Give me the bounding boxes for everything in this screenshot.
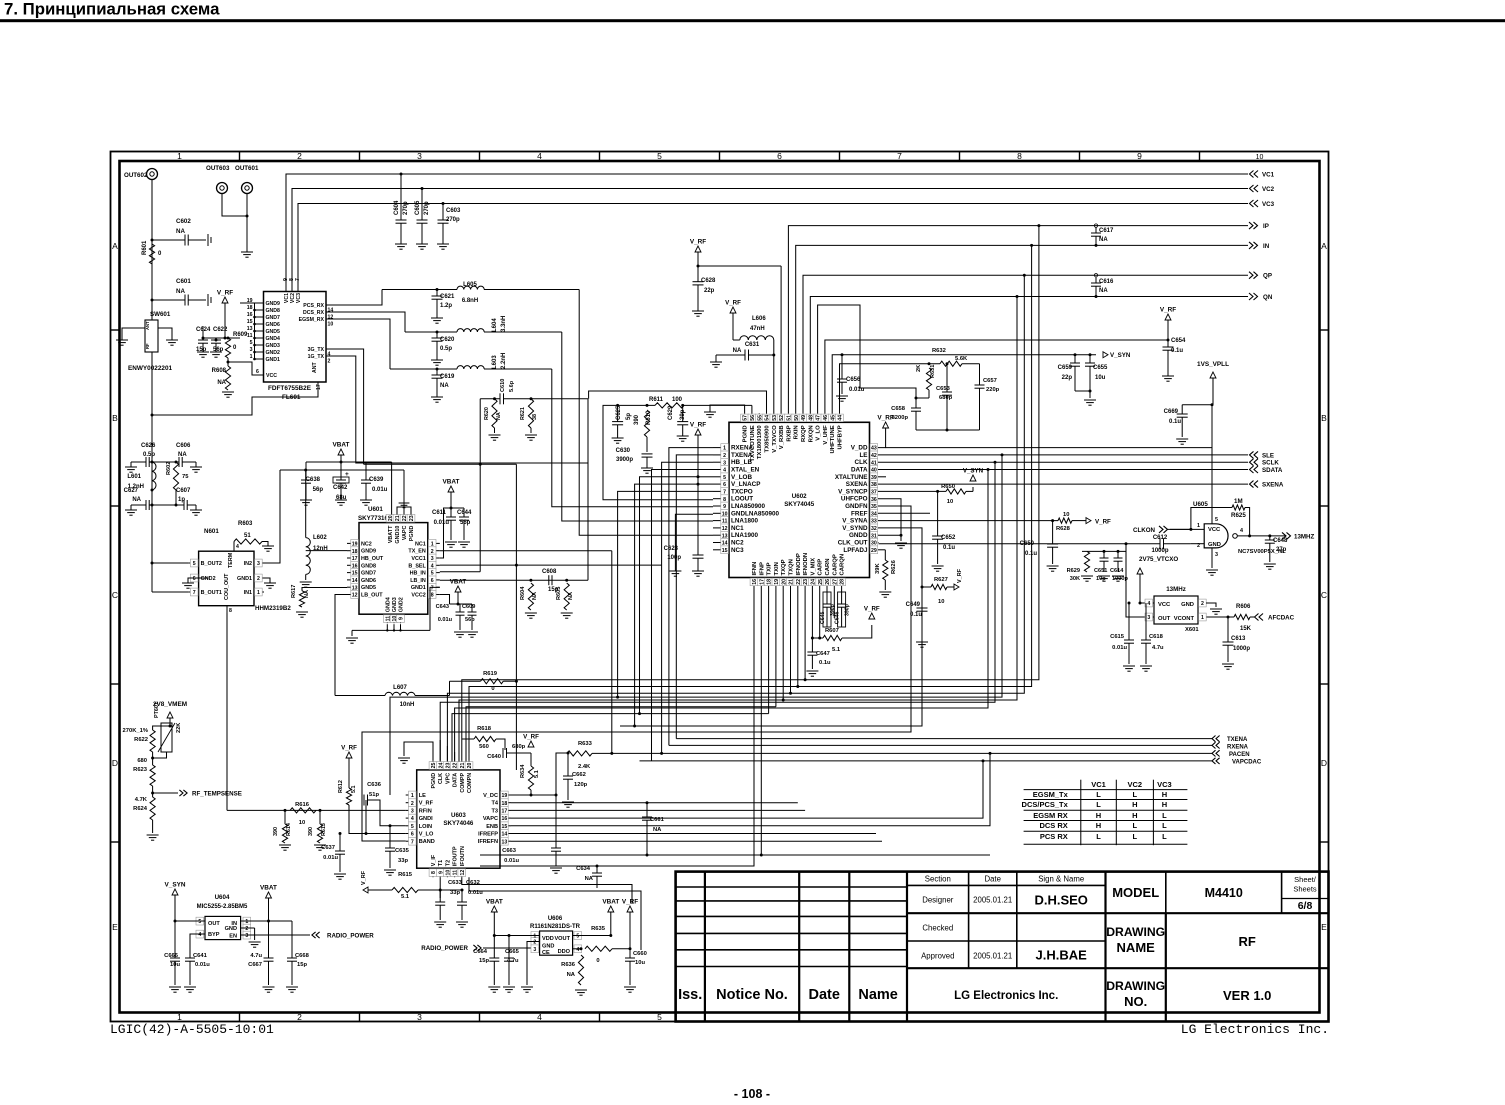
- svg-text:VBAT: VBAT: [260, 885, 277, 892]
- svg-text:7: 7: [897, 151, 902, 161]
- svg-text:12: 12: [460, 870, 466, 876]
- svg-text:0: 0: [596, 958, 599, 964]
- svg-text:C636: C636: [367, 782, 382, 788]
- svg-text:RXENA: RXENA: [1227, 745, 1249, 751]
- svg-text:V_SYN: V_SYN: [165, 882, 186, 889]
- svg-text:R606: R606: [1236, 604, 1251, 610]
- svg-text:3: 3: [533, 947, 536, 953]
- svg-text:10u: 10u: [1095, 375, 1106, 381]
- svg-text:1: 1: [177, 1012, 182, 1022]
- wire GNDLNA to ground: [675, 514, 713, 565]
- svg-text:C658: C658: [891, 406, 906, 412]
- svg-text:VC1: VC1: [1262, 172, 1275, 179]
- svg-text:10u: 10u: [635, 960, 645, 966]
- svg-text:56p: 56p: [213, 347, 224, 353]
- svg-text:V_RF: V_RF: [957, 568, 963, 583]
- svg-text:C633: C633: [448, 880, 463, 886]
- connector RXENA: [1216, 742, 1220, 748]
- svg-text:DRAWING: DRAWING: [1106, 925, 1165, 939]
- X601 pins: [1140, 602, 1154, 604]
- svg-text:390p: 390p: [845, 604, 851, 616]
- svg-text:TXIP: TXIP: [767, 562, 773, 575]
- svg-text:NA: NA: [176, 228, 185, 235]
- svg-text:C649: C649: [906, 602, 921, 608]
- svg-text:C637: C637: [321, 845, 335, 851]
- connector VC2: [1254, 185, 1258, 192]
- svg-text:11: 11: [247, 333, 253, 339]
- power V_RF at R612: [346, 752, 352, 758]
- wire L602 bottom gnd: [305, 574, 307, 580]
- svg-text:C621: C621: [440, 294, 455, 300]
- svg-text:3: 3: [257, 561, 260, 567]
- svg-text:6.8nH: 6.8nH: [462, 298, 478, 304]
- svg-text:Sign & Name: Sign & Name: [1038, 875, 1084, 884]
- svg-text:0.01u: 0.01u: [434, 520, 450, 526]
- connector RF_TEMPSENSE: [151, 792, 154, 795]
- wire V_LNACP left route: [635, 484, 698, 726]
- svg-text:20: 20: [467, 763, 473, 769]
- svg-text:C653: C653: [936, 386, 951, 392]
- IC U602 SKY74045 transceiver: [729, 422, 870, 577]
- svg-text:C610: C610: [500, 379, 506, 392]
- svg-text:VOUT: VOUT: [554, 936, 570, 942]
- svg-text:270K_1%: 270K_1%: [123, 728, 148, 734]
- svg-text:GND1: GND1: [411, 585, 426, 591]
- svg-text:C631: C631: [745, 342, 760, 348]
- connector 13MHZ: [1282, 532, 1286, 539]
- svg-text:5.1: 5.1: [832, 647, 841, 653]
- svg-text:38: 38: [532, 414, 538, 420]
- svg-text:C601: C601: [176, 278, 191, 285]
- svg-text:C615: C615: [1110, 634, 1125, 640]
- svg-text:L606: L606: [752, 316, 766, 322]
- svg-text:OUT: OUT: [208, 921, 220, 927]
- svg-text:8200p: 8200p: [892, 415, 909, 421]
- power VBAT at U604: [266, 892, 272, 898]
- svg-text:C656: C656: [846, 377, 861, 383]
- svg-text:V_MIX: V_MIX: [810, 558, 816, 576]
- svg-text:18: 18: [502, 801, 508, 807]
- svg-text:E: E: [1321, 922, 1327, 932]
- svg-text:100: 100: [672, 397, 683, 403]
- svg-text:6: 6: [256, 369, 259, 375]
- svg-text:5: 5: [1215, 517, 1218, 523]
- svg-text:R625: R625: [1231, 512, 1246, 519]
- svg-text:TERM: TERM: [228, 552, 234, 568]
- svg-text:GND: GND: [1181, 602, 1194, 608]
- svg-text:5: 5: [576, 934, 579, 940]
- wire LB_OUT to L607: [335, 595, 347, 696]
- svg-text:EN: EN: [229, 934, 237, 940]
- svg-text:U605: U605: [1193, 501, 1208, 508]
- svg-text:IP: IP: [1263, 223, 1269, 230]
- svg-text:8: 8: [431, 593, 434, 599]
- svg-text:15K: 15K: [1240, 626, 1252, 632]
- U605 VCC pin5 vertical: [1211, 405, 1213, 524]
- svg-text:4: 4: [236, 544, 239, 550]
- svg-text:IFREFN: IFREFN: [478, 839, 498, 845]
- svg-text:NC1: NC1: [731, 525, 744, 532]
- svg-text:13: 13: [247, 326, 253, 332]
- svg-text:VC3: VC3: [1262, 201, 1275, 208]
- svg-text:ANT: ANT: [145, 321, 150, 330]
- svg-text:VBAT: VBAT: [602, 899, 619, 906]
- power VBAT left of U606: [491, 906, 497, 912]
- svg-text:R624: R624: [133, 806, 148, 812]
- wire C634 net: [480, 865, 720, 867]
- svg-text:IFNP: IFNP: [759, 562, 765, 575]
- svg-text:C661: C661: [650, 817, 665, 823]
- wire FL601 ANT to SW601: [152, 352, 318, 415]
- svg-text:- 108 -: - 108 -: [734, 1087, 770, 1100]
- svg-text:C651: C651: [1094, 568, 1107, 574]
- svg-text:1: 1: [177, 151, 182, 161]
- svg-text:14: 14: [502, 832, 508, 838]
- svg-text:VBAT: VBAT: [333, 442, 350, 449]
- svg-text:LB_OUT: LB_OUT: [361, 593, 383, 599]
- power V_RF at U602 VDD: [883, 422, 889, 428]
- svg-text:LE: LE: [859, 452, 867, 459]
- svg-text:L601: L601: [127, 474, 141, 480]
- svg-text:A: A: [112, 241, 118, 251]
- wire TX850900 route to C610 net: [589, 391, 767, 413]
- capacitor C603 270p: [442, 202, 445, 205]
- FL601 right pins: [326, 304, 335, 306]
- svg-text:R635: R635: [591, 926, 606, 932]
- svg-text:51p: 51p: [369, 792, 379, 798]
- power V_RF top-left: [222, 297, 228, 303]
- wire V_TXVCO up to L606: [773, 355, 775, 413]
- svg-text:GND9: GND9: [361, 549, 376, 555]
- svg-text:R619: R619: [483, 671, 498, 677]
- svg-text:C655: C655: [1093, 365, 1108, 371]
- svg-text:5: 5: [657, 1012, 662, 1022]
- svg-text:3G_TX: 3G_TX: [308, 347, 325, 353]
- svg-text:R1161N281DS-TR: R1161N281DS-TR: [530, 924, 581, 930]
- N601 left pins: [189, 562, 199, 564]
- svg-text:GND2: GND2: [266, 350, 281, 356]
- FL601 ground bus: [254, 303, 256, 359]
- svg-text:5.6p: 5.6p: [509, 380, 515, 392]
- svg-text:RADIO_POWER: RADIO_POWER: [327, 933, 374, 940]
- wire vertical 516 to R619: [515, 464, 517, 681]
- wire V_IF down: [439, 877, 441, 898]
- svg-text:L: L: [1096, 832, 1101, 841]
- svg-text:C630: C630: [616, 448, 631, 454]
- wire to FL601 VCC: [228, 362, 263, 375]
- svg-text:V_RF: V_RF: [217, 290, 233, 297]
- svg-text:D: D: [1321, 758, 1327, 768]
- thermistor PT601: [161, 723, 172, 752]
- U603 left pins: [406, 794, 417, 796]
- svg-text:LE: LE: [419, 793, 426, 799]
- svg-text:B: B: [1321, 413, 1327, 423]
- svg-text:GNDI: GNDI: [419, 816, 433, 822]
- svg-text:SW601: SW601: [150, 311, 171, 318]
- wire V_LO line: [349, 805, 406, 834]
- svg-text:C657: C657: [983, 378, 997, 384]
- svg-text:VC3: VC3: [296, 293, 302, 303]
- connector VAPCDAC: [1216, 758, 1220, 764]
- svg-text:GND7: GND7: [266, 315, 281, 321]
- wire LB_OUT line: [302, 588, 347, 591]
- svg-text:H: H: [1162, 800, 1167, 809]
- power VBAT right of U606: [608, 906, 614, 912]
- svg-text:VBAT: VBAT: [486, 899, 503, 906]
- capacitor C621 1.2p: [436, 288, 439, 291]
- title block left grid: [704, 872, 706, 1022]
- svg-text:IN: IN: [1263, 243, 1270, 250]
- svg-text:MIC5255-2.85BM5: MIC5255-2.85BM5: [197, 904, 248, 910]
- wire VPLL junction: [1211, 403, 1214, 406]
- power V_RF at C660: [627, 906, 633, 912]
- resistor R626 39K LPFADJ: [879, 549, 886, 551]
- svg-text:LPFADJ: LPFADJ: [843, 547, 868, 554]
- svg-text:CLK_OUT: CLK_OUT: [838, 540, 868, 547]
- ground U602 pin57: [710, 405, 745, 413]
- svg-text:NA: NA: [440, 383, 449, 389]
- svg-text:390: 390: [308, 827, 314, 836]
- svg-text:CLKON: CLKON: [1133, 527, 1156, 534]
- svg-text:5p: 5p: [626, 413, 632, 420]
- svg-text:3: 3: [411, 809, 414, 815]
- svg-text:390: 390: [273, 827, 279, 836]
- svg-text:VCONT: VCONT: [1174, 616, 1195, 622]
- svg-text:NA: NA: [733, 348, 742, 354]
- svg-text:6/8: 6/8: [1298, 900, 1313, 912]
- svg-text:7. Принципиальная схема: 7. Принципиальная схема: [4, 0, 220, 19]
- svg-text:VPC: VPC: [445, 773, 451, 784]
- svg-text:33p: 33p: [398, 858, 408, 864]
- svg-text:COMPP: COMPP: [460, 773, 466, 793]
- wire IFOUTP route: [462, 877, 632, 904]
- svg-text:30K: 30K: [1070, 576, 1080, 582]
- svg-text:L: L: [1162, 811, 1167, 820]
- power VBAT2 at VCC2: [455, 586, 461, 592]
- svg-text:V_RF: V_RF: [864, 606, 880, 613]
- svg-text:GND3: GND3: [266, 343, 281, 349]
- wire IQ route IP to COMPP: [462, 226, 1039, 739]
- connector SXENA: [1254, 481, 1258, 488]
- connector VC3: [1254, 200, 1258, 207]
- connector PACEN: [1216, 750, 1220, 756]
- svg-text:VCC1: VCC1: [411, 556, 425, 562]
- svg-text:V_RF: V_RF: [361, 870, 367, 885]
- svg-text:VAPC: VAPC: [483, 816, 498, 822]
- svg-text:V_RF: V_RF: [523, 734, 539, 741]
- svg-text:R636: R636: [561, 962, 576, 968]
- svg-text:IFREFP: IFREFP: [478, 832, 498, 838]
- svg-text:NA: NA: [132, 497, 141, 503]
- svg-text:B: B: [112, 413, 118, 423]
- wire LNA1900: [579, 290, 713, 536]
- svg-text:13: 13: [502, 839, 508, 845]
- svg-text:R629: R629: [1067, 568, 1080, 574]
- svg-text:C617: C617: [1099, 228, 1114, 234]
- svg-text:TX850900: TX850900: [765, 425, 771, 453]
- wire IQ route QP to VPC: [447, 275, 1024, 761]
- svg-text:V_RXBB: V_RXBB: [779, 425, 785, 449]
- svg-text:15: 15: [247, 319, 253, 325]
- wire VC1 line: [286, 174, 1248, 283]
- svg-text:FDFT6755B2E: FDFT6755B2E: [268, 385, 312, 392]
- svg-text:HB_IN: HB_IN: [410, 571, 426, 577]
- svg-text:1000p: 1000p: [1233, 646, 1250, 652]
- wire HB_IN: [440, 571, 480, 573]
- svg-text:R605: R605: [556, 587, 562, 600]
- svg-text:C625: C625: [616, 405, 622, 420]
- svg-text:VDD: VDD: [542, 936, 554, 942]
- svg-text:V_SYNA: V_SYNA: [842, 518, 868, 525]
- svg-text:2: 2: [297, 151, 302, 161]
- svg-text:680p: 680p: [939, 395, 953, 401]
- svg-text:VCC: VCC: [1158, 602, 1171, 608]
- wire V_DD extension line: [886, 447, 1212, 449]
- svg-text:V_LOB: V_LOB: [731, 474, 752, 481]
- svg-text:VAPCDAC: VAPCDAC: [1232, 760, 1262, 766]
- svg-text:C632: C632: [466, 880, 480, 886]
- svg-text:3: 3: [417, 1012, 422, 1022]
- svg-text:0.1u: 0.1u: [819, 660, 831, 666]
- wire IQ route QN: [459, 297, 1017, 771]
- svg-text:U601: U601: [368, 506, 383, 513]
- svg-text:1: 1: [250, 354, 253, 360]
- U603 PGND ground: [404, 742, 433, 761]
- wire bundle U602 bottom verticals: [480, 587, 754, 867]
- svg-text:270p: 270p: [446, 217, 460, 223]
- svg-text:R617: R617: [291, 585, 297, 598]
- svg-text:VCC2: VCC2: [411, 593, 425, 599]
- svg-text:22K: 22K: [176, 723, 182, 733]
- wire IFREFN line: [511, 840, 882, 842]
- svg-text:4: 4: [576, 947, 579, 953]
- svg-text:GND8: GND8: [266, 308, 281, 314]
- svg-text:IFNN: IFNN: [752, 562, 758, 576]
- svg-text:LNA1900: LNA1900: [731, 532, 758, 539]
- svg-text:C660: C660: [633, 951, 647, 957]
- svg-text:NC2: NC2: [361, 541, 372, 547]
- svg-text:U603: U603: [451, 812, 466, 819]
- svg-text:VCC: VCC: [266, 373, 277, 379]
- U605 output wire: [1237, 535, 1286, 537]
- svg-text:AFCDAC: AFCDAC: [1268, 615, 1295, 622]
- svg-text:NA: NA: [653, 827, 662, 833]
- svg-text:NA: NA: [585, 876, 594, 882]
- svg-text:10: 10: [938, 599, 944, 605]
- svg-text:X601: X601: [1185, 627, 1199, 633]
- svg-text:0.1u: 0.1u: [1169, 419, 1181, 425]
- svg-text:L: L: [1133, 790, 1138, 799]
- wire CLK route: [440, 462, 995, 761]
- svg-text:TXENA: TXENA: [1227, 737, 1248, 743]
- svg-text:CLK: CLK: [855, 459, 868, 466]
- svg-text:R604: R604: [520, 586, 526, 600]
- wire VRF node: [203, 337, 240, 339]
- svg-text:GND1: GND1: [237, 576, 252, 582]
- svg-text:R612: R612: [338, 780, 344, 793]
- svg-text:56p: 56p: [460, 520, 471, 526]
- svg-text:V_RF: V_RF: [690, 239, 706, 246]
- wire TXIP route: [452, 714, 769, 770]
- svg-text:L: L: [1133, 832, 1138, 841]
- svg-text:QP: QP: [1263, 273, 1272, 280]
- wire RFIN line: [227, 809, 406, 811]
- wires FL601 RX to filters: [335, 290, 382, 306]
- svg-text:18: 18: [247, 305, 253, 311]
- wire CARQP down: [833, 587, 835, 619]
- svg-text:BAND: BAND: [419, 839, 435, 845]
- svg-text:J.H.BAE: J.H.BAE: [1036, 948, 1088, 963]
- svg-text:4: 4: [411, 816, 414, 822]
- wire VC3 line: [298, 204, 1248, 284]
- svg-text:CLK: CLK: [438, 773, 444, 784]
- svg-text:7: 7: [193, 590, 196, 596]
- svg-text:5: 5: [193, 561, 196, 567]
- svg-text:0.01u: 0.01u: [849, 387, 865, 393]
- svg-text:10nH: 10nH: [400, 702, 415, 708]
- svg-text:EGSM RX: EGSM RX: [1033, 811, 1068, 820]
- U601 top pins: [389, 515, 391, 523]
- svg-text:V_TXVCO: V_TXVCO: [772, 425, 778, 453]
- ground near C623: [669, 570, 681, 572]
- svg-text:22p: 22p: [1062, 375, 1073, 381]
- svg-text:1: 1: [257, 590, 260, 596]
- svg-text:5: 5: [411, 824, 414, 830]
- svg-text:15: 15: [722, 548, 728, 554]
- svg-text:GND2: GND2: [201, 576, 216, 582]
- svg-text:19: 19: [502, 793, 508, 799]
- svg-text:R632: R632: [932, 348, 946, 354]
- U605 GND pin3: [1211, 548, 1213, 568]
- svg-text:NO.: NO.: [1124, 994, 1147, 1009]
- svg-text:PGND: PGND: [409, 525, 415, 541]
- connector QP: [1249, 272, 1253, 279]
- svg-text:2.2nH: 2.2nH: [501, 353, 507, 369]
- svg-text:PCS RX: PCS RX: [1040, 832, 1068, 841]
- svg-text:2: 2: [328, 358, 331, 364]
- svg-text:680: 680: [137, 758, 147, 764]
- svg-text:GND6: GND6: [361, 578, 376, 584]
- svg-text:0.1u: 0.1u: [943, 545, 955, 551]
- svg-text:TXQN: TXQN: [789, 559, 795, 575]
- svg-text:0.01u: 0.01u: [323, 855, 338, 861]
- svg-text:R616: R616: [295, 802, 310, 808]
- svg-text:VAPC: VAPC: [402, 525, 408, 540]
- FL601 top pins VC1 VC2 VC3: [285, 283, 287, 292]
- svg-text:COU_OUT: COU_OUT: [224, 573, 230, 600]
- svg-text:3.3nH: 3.3nH: [501, 316, 507, 332]
- svg-text:C626: C626: [141, 443, 156, 449]
- svg-text:3: 3: [250, 347, 253, 353]
- wire B_SEL junction: [515, 680, 518, 683]
- svg-text:17: 17: [502, 809, 508, 815]
- svg-text:C635: C635: [395, 848, 410, 854]
- power V_RF above C628: [695, 246, 701, 252]
- svg-text:GND: GND: [225, 926, 237, 932]
- svg-text:15p: 15p: [297, 962, 307, 968]
- svg-text:OUT601: OUT601: [235, 165, 259, 172]
- svg-text:C622: C622: [213, 327, 228, 333]
- svg-text:RXQN: RXQN: [808, 425, 814, 442]
- svg-text:0.1u: 0.1u: [1171, 348, 1183, 354]
- svg-text:VC1: VC1: [1091, 780, 1106, 789]
- capacitor C645 390p boxed: [823, 592, 831, 627]
- wire FREF line: [879, 512, 931, 514]
- wire IFREFP line: [511, 833, 876, 835]
- svg-text:CARP: CARP: [818, 559, 824, 576]
- svg-text:EGSM_RX: EGSM_RX: [299, 317, 325, 323]
- svg-text:GND1: GND1: [266, 357, 281, 363]
